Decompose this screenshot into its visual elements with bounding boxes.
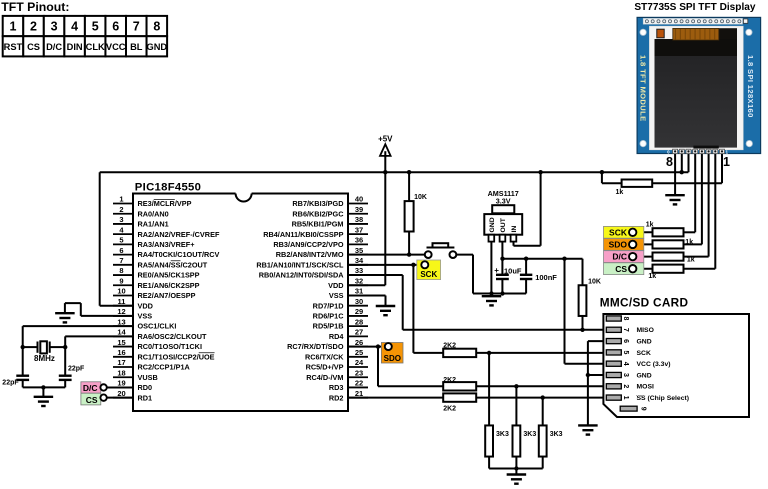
svg-text:17: 17 (117, 358, 125, 367)
svg-text:12: 12 (117, 307, 125, 316)
svg-text:5: 5 (92, 20, 99, 34)
svg-text:10: 10 (117, 287, 125, 296)
svg-text:D/C: D/C (83, 383, 98, 393)
svg-text:13: 13 (117, 317, 125, 326)
svg-text:16: 16 (117, 348, 125, 357)
svg-text:RB2/AN8/INT2/VMO: RB2/AN8/INT2/VMO (276, 250, 344, 259)
svg-text:RA1/AN1: RA1/AN1 (138, 220, 169, 229)
svg-text:1k: 1k (646, 221, 654, 228)
svg-text:7: 7 (133, 20, 140, 34)
svg-text:23: 23 (355, 368, 363, 377)
svg-text:6: 6 (622, 339, 629, 343)
svg-text:RB0/AN12/INT0/SDI/SDA: RB0/AN12/INT0/SDI/SDA (259, 271, 344, 280)
svg-text:RB7/KBI3/PGD: RB7/KBI3/PGD (292, 199, 343, 208)
svg-text:33: 33 (355, 266, 363, 275)
svg-text:25: 25 (355, 348, 363, 357)
svg-text:RC7/RX/DT/SDO: RC7/RX/DT/SDO (287, 342, 344, 351)
svg-text:GND: GND (637, 339, 652, 346)
svg-text:RC6/TX/CK: RC6/TX/CK (305, 352, 344, 361)
svg-text:RA4/T0CKI/C1OUT/RCV: RA4/T0CKI/C1OUT/RCV (138, 250, 220, 259)
svg-text:30: 30 (355, 297, 363, 306)
svg-text:VDD: VDD (138, 301, 153, 310)
svg-text:6: 6 (119, 246, 123, 255)
svg-text:8: 8 (119, 266, 123, 275)
svg-text:2: 2 (119, 205, 123, 214)
svg-text:CS: CS (615, 264, 627, 274)
svg-text:2K2: 2K2 (443, 377, 456, 384)
svg-text:RST: RST (4, 42, 23, 52)
svg-text:RE1/AN6/CK2SPP: RE1/AN6/CK2SPP (138, 281, 200, 290)
svg-text:MISO: MISO (637, 327, 654, 334)
svg-text:RC4/D-/VM: RC4/D-/VM (306, 373, 343, 382)
svg-text:22pF: 22pF (68, 365, 85, 372)
svg-text:RD4: RD4 (329, 332, 345, 341)
svg-text:3K3: 3K3 (496, 431, 509, 438)
svg-text:SDO: SDO (609, 240, 628, 250)
svg-text:28: 28 (355, 317, 363, 326)
svg-text:9: 9 (640, 407, 647, 411)
svg-text:RD0: RD0 (138, 383, 153, 392)
svg-text:RC0/T1OSO/T1CKI: RC0/T1OSO/T1CKI (138, 342, 202, 351)
svg-text:3K3: 3K3 (550, 431, 563, 438)
svg-text:SCK: SCK (420, 270, 437, 279)
svg-text:CS: CS (27, 42, 40, 52)
svg-text:D/C: D/C (46, 42, 62, 52)
svg-text:4: 4 (622, 362, 629, 366)
svg-text:CS: CS (86, 395, 98, 405)
svg-text:2K2: 2K2 (443, 343, 456, 350)
svg-text:22pF: 22pF (2, 380, 19, 387)
svg-text:29: 29 (355, 307, 363, 316)
svg-text:26: 26 (355, 338, 363, 347)
svg-text:RA3/AN3/VREF+: RA3/AN3/VREF+ (138, 240, 195, 249)
svg-text:VSS: VSS (138, 312, 153, 321)
svg-text:38: 38 (355, 215, 363, 224)
svg-text:VSS: VSS (329, 291, 344, 300)
svg-text:8: 8 (622, 317, 629, 321)
svg-text:3.3V: 3.3V (496, 197, 511, 206)
svg-text:D/C: D/C (612, 252, 627, 262)
svg-text:8MHz: 8MHz (34, 354, 55, 363)
svg-text:SCK: SCK (609, 227, 628, 237)
svg-text:RB4/AN11/KBI0/CSSPP: RB4/AN11/KBI0/CSSPP (263, 230, 343, 239)
svg-text:18: 18 (117, 368, 125, 377)
svg-text:19: 19 (117, 379, 125, 388)
svg-text:7: 7 (622, 328, 629, 332)
svg-text:2: 2 (30, 20, 37, 34)
svg-text:1k: 1k (648, 273, 656, 280)
svg-text:SS (Chip Select): SS (Chip Select) (637, 395, 690, 402)
svg-text:15: 15 (117, 338, 125, 347)
svg-text:RA6/OSC2/CLKOUT: RA6/OSC2/CLKOUT (138, 332, 207, 341)
svg-text:RC1/T1OSI/CCP2/UOE: RC1/T1OSI/CCP2/UOE (138, 352, 215, 361)
svg-text:VDD: VDD (328, 281, 343, 290)
svg-text:1: 1 (723, 155, 730, 169)
svg-text:RB5/KBI1/PGM: RB5/KBI1/PGM (292, 220, 344, 229)
svg-text:34: 34 (355, 256, 364, 265)
svg-text:OUT: OUT (500, 217, 507, 232)
svg-text:10K: 10K (414, 194, 427, 201)
svg-text:GND: GND (489, 217, 496, 232)
svg-text:+: + (494, 266, 499, 275)
svg-text:32: 32 (355, 276, 363, 285)
svg-text:RA2/AN2/VREF-/CVREF: RA2/AN2/VREF-/CVREF (138, 230, 220, 239)
svg-text:2K2: 2K2 (443, 406, 456, 413)
svg-text:35: 35 (355, 246, 363, 255)
svg-text:21: 21 (355, 389, 363, 398)
svg-text:1k: 1k (685, 239, 693, 246)
svg-text:RB6/KBI2/PGC: RB6/KBI2/PGC (292, 209, 344, 218)
svg-text:BL: BL (130, 42, 143, 52)
svg-text:RD5/P1B: RD5/P1B (313, 322, 344, 331)
svg-text:20: 20 (117, 389, 125, 398)
svg-text:8: 8 (153, 20, 160, 34)
svg-text:SCK: SCK (637, 350, 651, 357)
svg-text:RD6/P1C: RD6/P1C (313, 312, 345, 321)
svg-text:RD2: RD2 (329, 393, 344, 402)
svg-text:RD1: RD1 (138, 393, 153, 402)
svg-text:5: 5 (622, 350, 629, 354)
svg-text:RB3/AN9/CCP2/VPO: RB3/AN9/CCP2/VPO (273, 240, 343, 249)
svg-text:24: 24 (355, 358, 364, 367)
svg-text:27: 27 (355, 328, 363, 337)
svg-text:RE0/AN5/CK1SPP: RE0/AN5/CK1SPP (138, 271, 200, 280)
svg-text:DIN: DIN (67, 42, 83, 52)
svg-text:9: 9 (119, 276, 123, 285)
svg-text:+5V: +5V (378, 135, 393, 144)
svg-text:CLK: CLK (86, 42, 105, 52)
svg-text:GND: GND (637, 372, 652, 379)
svg-text:IN: IN (511, 226, 518, 233)
svg-text:2: 2 (622, 384, 629, 388)
svg-text:SDO: SDO (384, 354, 401, 363)
svg-text:ST7735S SPI TFT Display: ST7735S SPI TFT Display (634, 2, 756, 13)
svg-text:MOSI: MOSI (637, 384, 654, 391)
svg-text:37: 37 (355, 225, 363, 234)
svg-text:1k: 1k (687, 257, 695, 264)
svg-text:11: 11 (118, 297, 126, 306)
svg-text:GND: GND (146, 42, 167, 52)
svg-text:10uF: 10uF (504, 267, 522, 276)
svg-text:100nF: 100nF (535, 273, 557, 282)
svg-text:VCC (3.3v): VCC (3.3v) (637, 361, 671, 368)
svg-text:4: 4 (71, 20, 78, 34)
svg-text:VCC: VCC (106, 42, 126, 52)
svg-text:RA0/AN0: RA0/AN0 (138, 209, 169, 218)
svg-text:RA5/AN4/SS/C2OUT: RA5/AN4/SS/C2OUT (138, 260, 208, 269)
svg-text:RE3/MCLR/VPP: RE3/MCLR/VPP (138, 199, 192, 208)
svg-text:3: 3 (622, 373, 629, 377)
svg-text:1.8 TFT MODULE: 1.8 TFT MODULE (638, 55, 647, 122)
svg-text:3: 3 (51, 20, 58, 34)
svg-text:40: 40 (355, 195, 363, 204)
svg-text:39: 39 (355, 205, 363, 214)
svg-text:RE2/AN7/OESPP: RE2/AN7/OESPP (138, 291, 196, 300)
svg-text:22: 22 (355, 379, 363, 388)
svg-text:RB1/AN10/INT1/SCK/SCL: RB1/AN10/INT1/SCK/SCL (256, 260, 344, 269)
svg-text:36: 36 (355, 236, 363, 245)
svg-text:3: 3 (119, 215, 123, 224)
svg-text:RC5/D+/VP: RC5/D+/VP (306, 363, 344, 372)
svg-text:RD7/P1D: RD7/P1D (313, 301, 344, 310)
svg-text:14: 14 (117, 328, 126, 337)
svg-text:1: 1 (9, 20, 16, 34)
svg-text:OSC1/CLKI: OSC1/CLKI (138, 322, 177, 331)
svg-text:1: 1 (119, 195, 123, 204)
svg-text:8: 8 (666, 155, 673, 169)
svg-text:6: 6 (112, 20, 119, 34)
svg-text:31: 31 (355, 287, 363, 296)
svg-text:MMC/SD CARD: MMC/SD CARD (600, 295, 689, 309)
svg-text:RC2/CCP1/P1A: RC2/CCP1/P1A (138, 363, 191, 372)
svg-text:10K: 10K (588, 279, 601, 286)
svg-text:RD3: RD3 (329, 383, 344, 392)
svg-text:1k: 1k (616, 189, 624, 196)
svg-text:1.8 SPI 128X160: 1.8 SPI 128X160 (746, 55, 755, 118)
svg-text:VUSB: VUSB (138, 373, 158, 382)
svg-text:5: 5 (119, 236, 123, 245)
svg-text:1: 1 (622, 396, 629, 400)
svg-text:PIC18F4550: PIC18F4550 (135, 182, 201, 194)
svg-text:7: 7 (119, 256, 123, 265)
svg-text:3K3: 3K3 (523, 431, 536, 438)
svg-text:TFT Pinout:: TFT Pinout: (1, 0, 69, 14)
